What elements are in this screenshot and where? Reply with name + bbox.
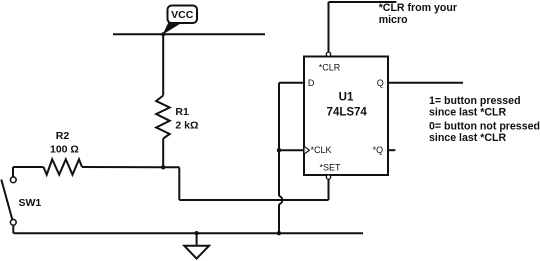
wire junction to corner bbox=[163, 166, 179, 168]
svg-text:2 kΩ: 2 kΩ bbox=[175, 119, 198, 131]
wire VCC top rail bbox=[113, 33, 265, 35]
label *CLR from your micro bbox=[379, 2, 457, 26]
clock input triangle bbox=[304, 146, 309, 154]
wire Q output bbox=[388, 82, 463, 84]
svg-text:1= button pressed: 1= button pressed bbox=[429, 95, 521, 107]
wire D down to CLK node bbox=[278, 83, 280, 151]
wire CLK node down to hop bbox=[278, 150, 280, 196]
wire D pin bbox=[279, 82, 304, 84]
svg-text:micro: micro bbox=[379, 14, 408, 26]
svg-text:VCC: VCC bbox=[171, 9, 194, 21]
svg-text:D: D bbox=[308, 78, 315, 88]
svg-text:74LS74: 74LS74 bbox=[327, 107, 368, 119]
wire switch to R2 bbox=[13, 166, 44, 168]
wire to *SET bbox=[179, 199, 328, 201]
svg-text:SW1: SW1 bbox=[19, 197, 42, 209]
wire R1 bottom lead bbox=[162, 139, 164, 168]
wire switch bottom lead bbox=[12, 225, 14, 233]
svg-text:R1: R1 bbox=[175, 106, 189, 118]
wire hop to ground rail bbox=[278, 204, 280, 233]
wire CLK pin bbox=[279, 149, 304, 151]
wire *CLR top rail bbox=[329, 1, 397, 3]
svg-text:0= button not pressed: 0= button not pressed bbox=[429, 121, 540, 133]
node D/CLK junction bbox=[277, 148, 281, 152]
svg-text:100 Ω: 100 Ω bbox=[50, 143, 79, 155]
wire corner down bbox=[178, 167, 180, 200]
node D/CLK net on ground rail bbox=[277, 231, 281, 235]
switch SW1 bbox=[1, 177, 41, 225]
wire ground rail bbox=[13, 232, 363, 234]
wire *CLR vertical bbox=[328, 2, 330, 52]
resistor R1 bbox=[156, 96, 170, 139]
label R2 value bbox=[50, 130, 79, 155]
label R1 value bbox=[175, 106, 198, 132]
pin *SET inversion bubble bbox=[326, 175, 330, 179]
ground bbox=[184, 233, 209, 258]
wire R2 to junction bbox=[82, 166, 163, 168]
node VCC junction bbox=[161, 32, 165, 36]
svg-text:*CLR: *CLR bbox=[319, 63, 341, 73]
VCC power symbol bbox=[163, 6, 197, 35]
svg-text:*CLR from your: *CLR from your bbox=[379, 2, 457, 14]
pin *CLR inversion bubble bbox=[326, 52, 330, 56]
wire from VCC rail to R1 bbox=[162, 34, 164, 95]
svg-text:since last *CLR: since last *CLR bbox=[429, 132, 506, 144]
wire up into *SET pin bbox=[328, 179, 330, 200]
svg-text:since last *CLR: since last *CLR bbox=[429, 106, 506, 118]
svg-text:Q: Q bbox=[377, 78, 384, 88]
wire switch top lead bbox=[12, 167, 14, 177]
node ground tap bbox=[194, 231, 198, 235]
wire *Q stub bbox=[388, 149, 395, 151]
svg-text:U1: U1 bbox=[339, 92, 354, 104]
svg-text:R2: R2 bbox=[56, 130, 70, 142]
op-amp U1 74LS74 flip-flop body bbox=[304, 57, 388, 176]
svg-text:*Q: *Q bbox=[373, 145, 384, 155]
svg-text:*CLK: *CLK bbox=[311, 145, 332, 155]
wire hop over SET wire bbox=[279, 196, 282, 204]
resistor R2 bbox=[44, 159, 83, 174]
label Q output explanation bbox=[429, 95, 540, 144]
node R1/R2 junction bbox=[161, 165, 165, 169]
svg-text:*SET: *SET bbox=[320, 163, 342, 173]
